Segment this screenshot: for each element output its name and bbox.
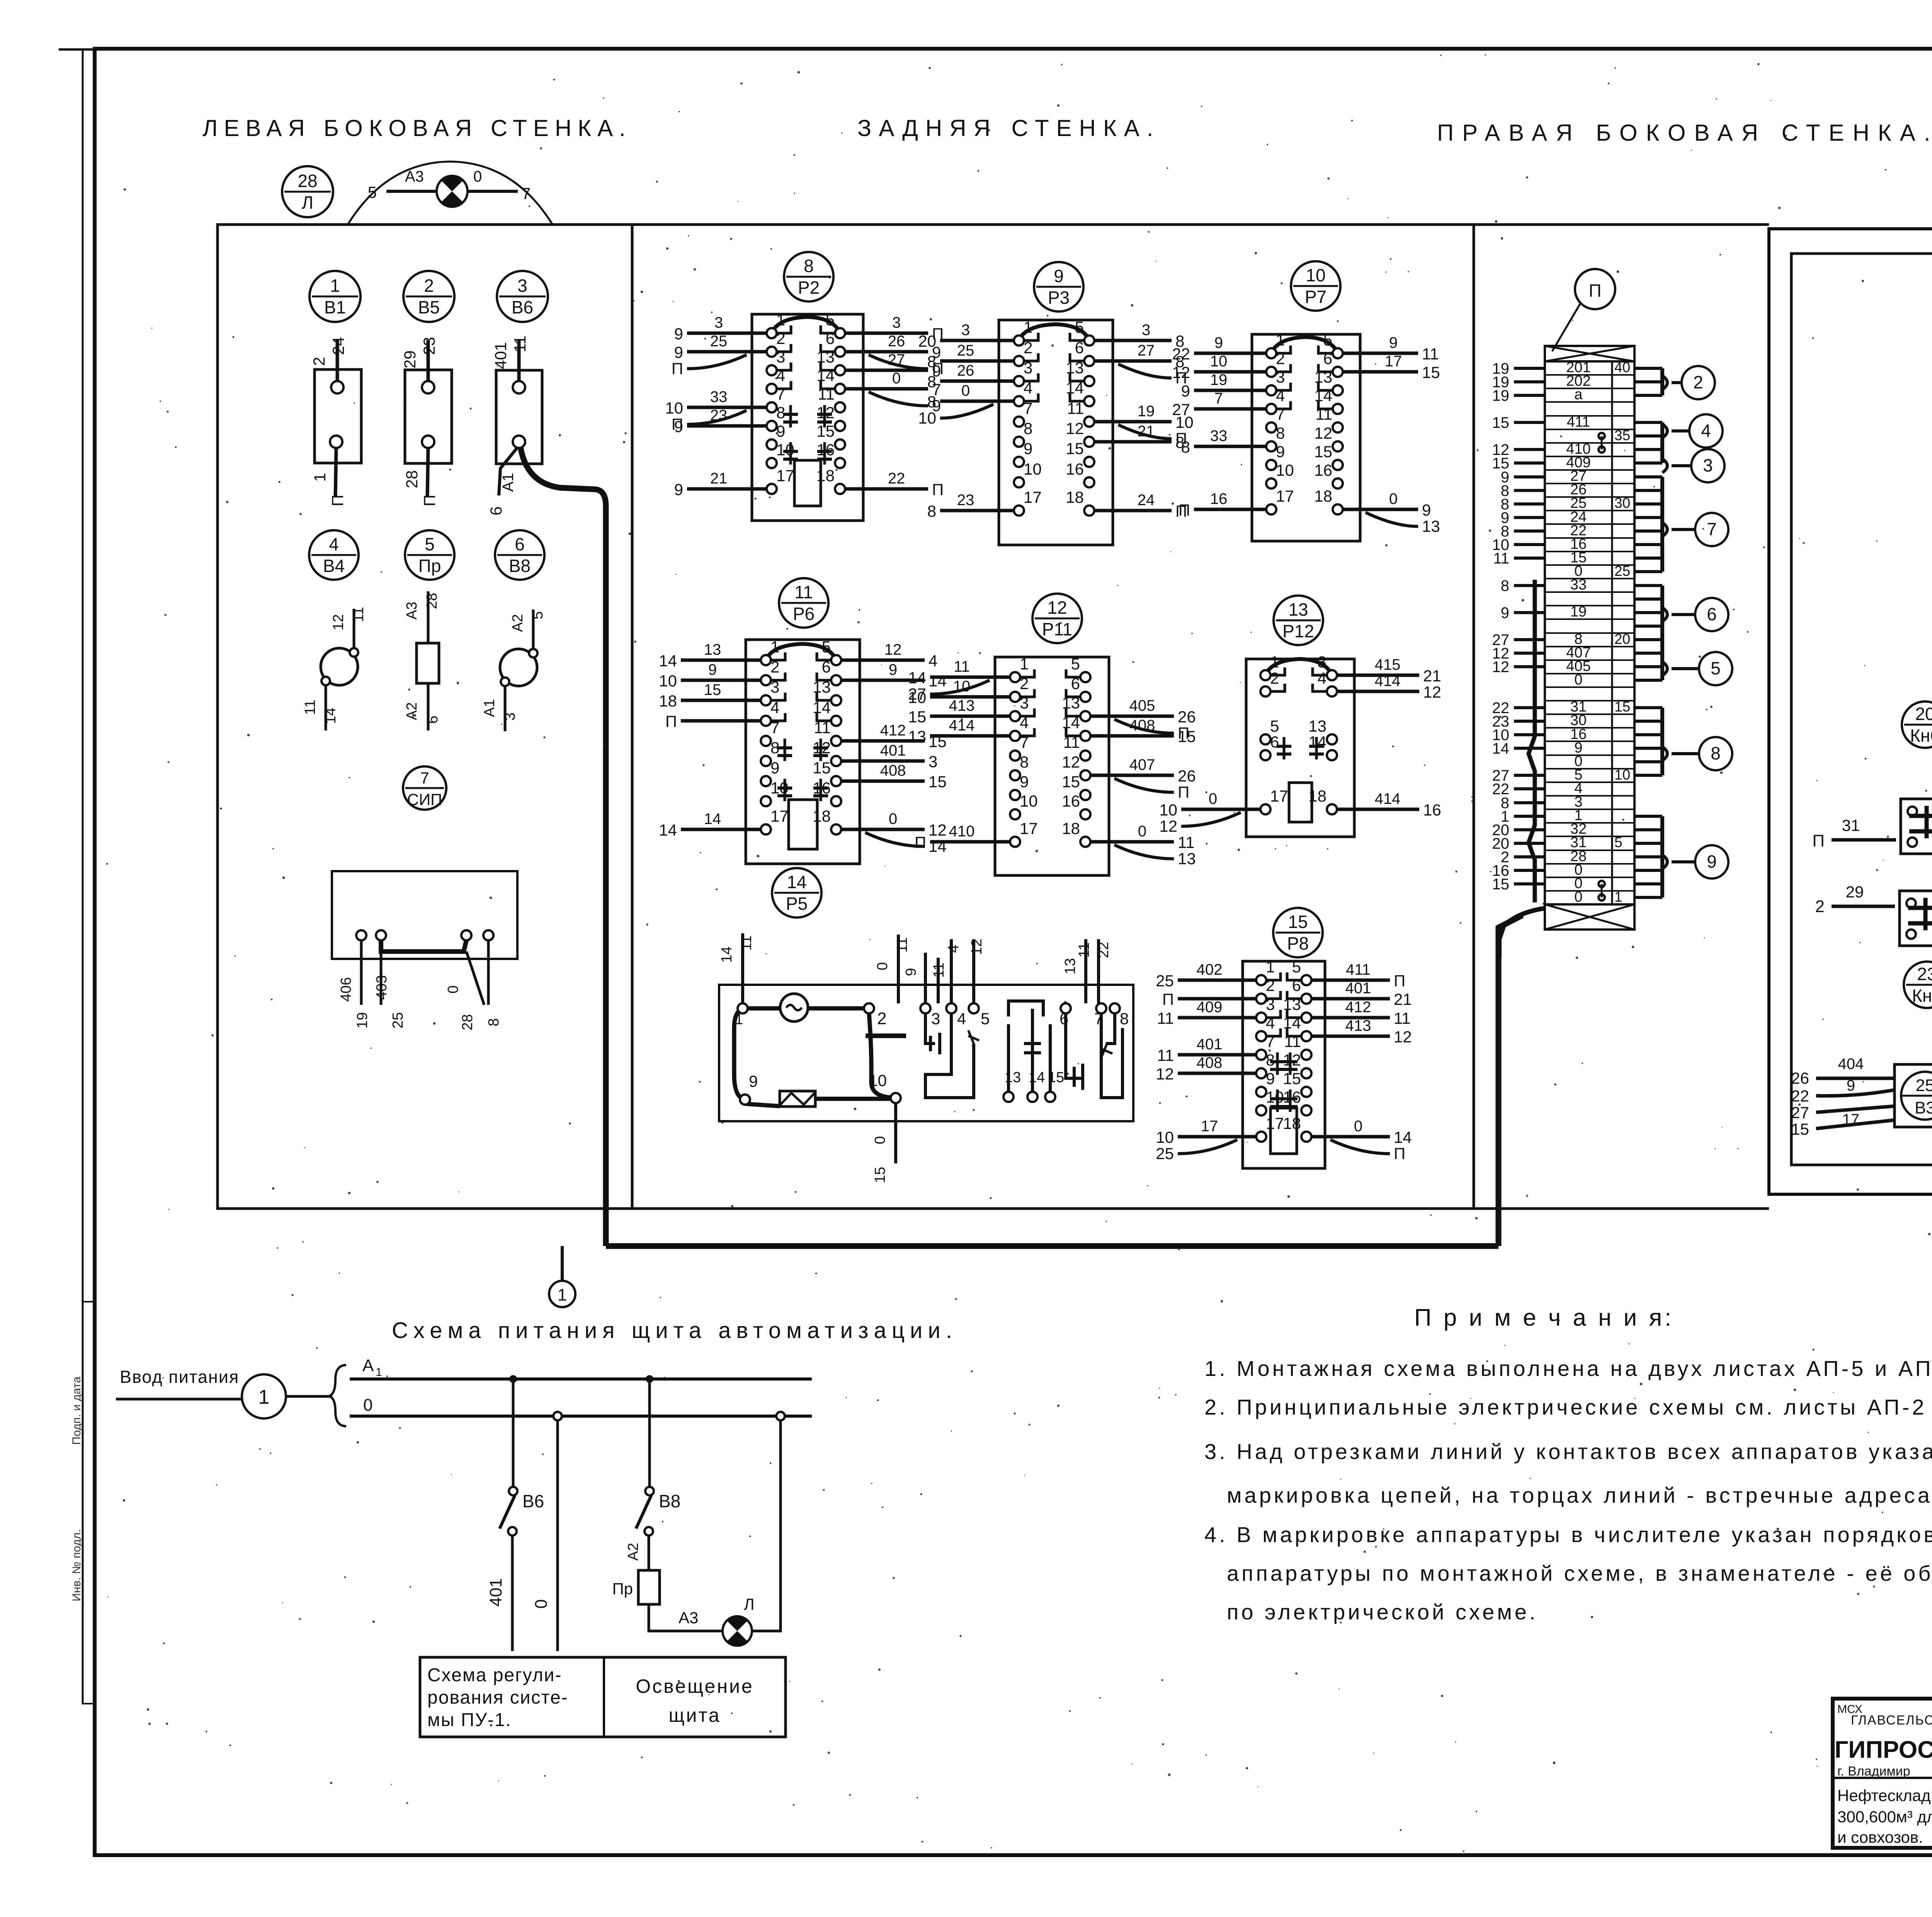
svg-text:12: 12	[969, 939, 985, 955]
svg-text:26: 26	[1178, 708, 1196, 726]
svg-text:14: 14	[1394, 1128, 1412, 1146]
svg-text:Р8: Р8	[1287, 933, 1309, 953]
svg-text:мы ПУ-1.: мы ПУ-1.	[427, 1710, 512, 1730]
switch label circle 6/В8	[495, 530, 544, 580]
svg-text:9: 9	[1020, 773, 1029, 791]
svg-text:А: А	[362, 1356, 374, 1375]
svg-text:5: 5	[1292, 958, 1301, 976]
svg-text:В3: В3	[1915, 1098, 1932, 1117]
svg-text:27: 27	[1138, 342, 1155, 359]
svg-text:СИП: СИП	[407, 790, 442, 809]
svg-text:В8: В8	[659, 1491, 680, 1511]
svg-text:Р12: Р12	[1282, 621, 1314, 641]
svg-text:8: 8	[1024, 419, 1032, 438]
node circle 1 (harness)	[549, 1281, 575, 1307]
svg-text:0: 0	[1389, 490, 1398, 507]
svg-text:2: 2	[877, 1009, 886, 1028]
svg-text:6: 6	[1707, 604, 1717, 624]
svg-text:П: П	[672, 359, 683, 378]
svg-text:14: 14	[1066, 379, 1084, 397]
svg-text:3: 3	[931, 1010, 940, 1028]
svg-text:5: 5	[826, 311, 835, 329]
svg-text:12: 12	[1314, 424, 1332, 442]
svg-text:8: 8	[1020, 753, 1029, 771]
svg-text:5: 5	[425, 534, 435, 554]
svg-text:6: 6	[1323, 349, 1332, 368]
svg-text:10: 10	[1276, 461, 1294, 479]
svg-text:12: 12	[1047, 598, 1067, 618]
svg-text:11: 11	[954, 658, 970, 675]
svg-text:13: 13	[908, 727, 926, 746]
svg-text:14: 14	[1062, 713, 1080, 732]
svg-text:11: 11	[1076, 942, 1092, 957]
svg-text:9: 9	[708, 661, 717, 678]
terminal strip П	[1492, 346, 1733, 958]
svg-text:14: 14	[1314, 386, 1332, 405]
svg-text:7: 7	[1020, 733, 1029, 751]
svg-text:2: 2	[1024, 339, 1032, 357]
svg-text:10: 10	[1024, 460, 1042, 478]
svg-text:15: 15	[1614, 699, 1630, 715]
svg-text:15: 15	[1066, 439, 1084, 458]
svg-text:8: 8	[1711, 743, 1721, 763]
svg-text:16: 16	[1314, 461, 1332, 479]
switch label circle 4/В4	[309, 530, 359, 580]
svg-text:15: 15	[813, 759, 831, 777]
door inner outline	[1791, 254, 1932, 1165]
svg-text:6: 6	[1270, 733, 1279, 751]
svg-text:22: 22	[1791, 1087, 1809, 1105]
back wall outline	[632, 225, 1474, 1209]
svg-text:15: 15	[872, 1167, 888, 1183]
button label 20/Кн6	[1902, 701, 1932, 748]
svg-text:11: 11	[814, 718, 831, 737]
svg-text:П: П	[665, 712, 677, 730]
svg-text:21: 21	[1138, 423, 1155, 440]
svg-text:401: 401	[486, 1578, 505, 1606]
svg-text:6: 6	[515, 534, 525, 554]
svg-text:3: 3	[1276, 368, 1285, 386]
svg-text:4: 4	[957, 1010, 966, 1028]
branch B8 with fuse and lamp	[612, 1383, 754, 1631]
svg-text:В8: В8	[509, 556, 531, 576]
feed node circle 1	[242, 1374, 332, 1418]
left wall outline	[218, 225, 632, 1209]
svg-text:10: 10	[908, 688, 926, 707]
svg-text:1: 1	[1020, 655, 1029, 673]
svg-text:и совхозов.: и совхозов.	[1837, 1828, 1923, 1846]
label circle 7/СИП	[403, 766, 446, 810]
svg-text:15: 15	[908, 708, 926, 726]
svg-text:3: 3	[776, 348, 785, 366]
svg-text:2: 2	[424, 276, 434, 296]
svg-text:16: 16	[1210, 490, 1228, 507]
svg-text:415: 415	[1375, 656, 1401, 673]
svg-text:13: 13	[1062, 958, 1078, 974]
svg-text:ЛЕВАЯ БОКОВАЯ СТЕНКА.: ЛЕВАЯ БОКОВАЯ СТЕНКА.	[202, 115, 632, 141]
svg-text:14: 14	[659, 821, 677, 839]
svg-text:15: 15	[1422, 363, 1440, 381]
svg-text:7: 7	[1707, 519, 1717, 539]
svg-text:21: 21	[710, 470, 728, 487]
svg-text:14: 14	[929, 837, 947, 855]
svg-text:П р и м е ч а н и я:: П р и м е ч а н и я:	[1414, 1304, 1674, 1331]
svg-text:15: 15	[1062, 773, 1080, 791]
svg-text:5: 5	[1323, 331, 1332, 349]
svg-text:33: 33	[1210, 427, 1228, 444]
svg-text:4: 4	[1276, 386, 1285, 405]
svg-text:21: 21	[1423, 667, 1441, 685]
svg-text:14: 14	[813, 698, 831, 717]
svg-text:7: 7	[1276, 405, 1285, 423]
svg-text:28: 28	[459, 1014, 476, 1030]
svg-text:17: 17	[1276, 487, 1294, 505]
svg-text:10: 10	[1306, 265, 1325, 285]
svg-text:10: 10	[665, 399, 683, 417]
svg-text:5: 5	[1075, 318, 1084, 336]
relay label 8/Р2	[784, 252, 833, 301]
svg-text:Освещение: Освещение	[636, 1675, 753, 1697]
switch label circle 1/В1	[310, 271, 361, 322]
svg-text:401: 401	[492, 342, 510, 369]
svg-text:4: 4	[770, 698, 779, 717]
svg-text:А3: А3	[404, 602, 420, 620]
svg-text:9: 9	[1501, 604, 1509, 621]
svg-text:40: 40	[1614, 359, 1630, 375]
svg-text:3: 3	[1142, 322, 1150, 339]
svg-text:5: 5	[822, 638, 831, 656]
svg-text:Схема регули-: Схема регули-	[427, 1665, 562, 1685]
svg-text:5: 5	[1071, 655, 1080, 673]
svg-text:0: 0	[961, 382, 970, 399]
svg-text:13: 13	[1283, 995, 1301, 1013]
svg-text:26: 26	[888, 333, 905, 350]
svg-text:15: 15	[1314, 443, 1332, 461]
svg-text:414: 414	[1375, 672, 1401, 690]
svg-text:1: 1	[330, 276, 340, 296]
svg-text:12: 12	[929, 821, 947, 839]
svg-text:ГЛАВСЕЛЬСТРОЙПРОЕКТ: ГЛАВСЕЛЬСТРОЙПРОЕКТ	[1851, 1713, 1932, 1728]
svg-text:28: 28	[298, 171, 317, 191]
svg-text:А1: А1	[500, 473, 517, 492]
svg-text:Л: Л	[302, 192, 313, 213]
svg-text:20: 20	[918, 332, 936, 350]
svg-text:33: 33	[1570, 577, 1587, 593]
svg-text:25: 25	[957, 342, 975, 359]
svg-text:4: 4	[1020, 713, 1029, 732]
svg-text:А2: А2	[404, 702, 420, 720]
svg-text:3: 3	[1703, 455, 1713, 475]
bus A1	[350, 1356, 812, 1379]
svg-text:6: 6	[1075, 339, 1084, 357]
svg-text:11: 11	[511, 335, 529, 352]
svg-text:2: 2	[1693, 372, 1703, 392]
svg-text:4: 4	[929, 652, 937, 670]
svg-text:15: 15	[929, 773, 947, 791]
door outer outline	[1769, 229, 1932, 1194]
svg-text:4: 4	[776, 366, 785, 385]
svg-text:5: 5	[1711, 658, 1721, 678]
branch B6	[486, 1383, 544, 1651]
svg-text:1: 1	[1614, 889, 1622, 905]
svg-text:22: 22	[888, 470, 905, 487]
svg-text:10: 10	[869, 1071, 887, 1090]
svg-text:18: 18	[813, 807, 831, 825]
svg-text:9: 9	[889, 661, 897, 678]
feed wire	[116, 1398, 242, 1401]
lamp Л wire 5-А3-0-7	[368, 168, 531, 203]
svg-text:маркировка цепей, на торцах: маркировка цепей, на торцах линий - встр…	[1227, 1483, 1932, 1507]
svg-text:10: 10	[918, 409, 936, 427]
svg-text:28: 28	[403, 470, 421, 489]
svg-text:2: 2	[776, 329, 785, 347]
svg-text:10: 10	[1614, 767, 1630, 783]
svg-text:23: 23	[420, 337, 438, 355]
svg-text:413: 413	[1345, 1017, 1371, 1034]
svg-text:11: 11	[1157, 1009, 1174, 1027]
svg-text:21: 21	[1394, 990, 1412, 1008]
svg-text:0: 0	[1574, 672, 1582, 688]
feed brace	[329, 1365, 346, 1426]
svg-text:13: 13	[1288, 599, 1308, 620]
svg-text:401: 401	[1345, 980, 1371, 997]
svg-text:8: 8	[927, 502, 936, 520]
svg-text:28: 28	[424, 593, 440, 609]
svg-text:8: 8	[927, 373, 936, 391]
svg-text:г. Владимир: г. Владимир	[1837, 1764, 1910, 1779]
svg-text:8: 8	[1501, 577, 1509, 594]
svg-text:1: 1	[776, 311, 785, 329]
svg-text:16: 16	[1066, 460, 1084, 478]
svg-text:0: 0	[363, 1396, 372, 1415]
svg-text:18: 18	[659, 692, 677, 710]
svg-text:401: 401	[1197, 1036, 1223, 1053]
svg-text:5: 5	[1614, 834, 1622, 850]
svg-text:17: 17	[1842, 1111, 1860, 1128]
svg-text:11: 11	[1063, 733, 1080, 751]
svg-text:3: 3	[961, 322, 970, 339]
svg-text:414: 414	[1375, 790, 1401, 807]
relay Р2	[665, 311, 944, 521]
svg-text:0: 0	[445, 985, 461, 993]
svg-text:3: 3	[1318, 653, 1327, 671]
svg-text:12: 12	[330, 614, 347, 630]
svg-text:9: 9	[1181, 382, 1190, 400]
svg-text:6: 6	[826, 329, 835, 347]
svg-text:11: 11	[794, 582, 813, 602]
svg-text:7: 7	[522, 184, 531, 203]
svg-text:15: 15	[1791, 1120, 1809, 1138]
svg-text:3. Над отрезками линий у к: 3. Над отрезками линий у контактов всех …	[1204, 1439, 1932, 1464]
svg-text:23: 23	[710, 407, 728, 424]
svg-text:11: 11	[931, 962, 947, 977]
svg-text:13: 13	[1066, 359, 1084, 377]
svg-text:18: 18	[1062, 819, 1080, 838]
svg-text:0: 0	[532, 1599, 551, 1609]
svg-text:17: 17	[1266, 1114, 1284, 1132]
svg-text:11: 11	[738, 935, 755, 950]
svg-text:4: 4	[1318, 669, 1327, 687]
svg-text:20: 20	[1915, 704, 1932, 724]
svg-text:3: 3	[1266, 995, 1275, 1013]
svg-text:14: 14	[659, 652, 677, 670]
svg-text:5: 5	[981, 1010, 990, 1028]
svg-text:А2: А2	[510, 614, 526, 632]
svg-text:13: 13	[1308, 717, 1327, 735]
svg-text:1: 1	[1270, 653, 1279, 671]
svg-text:1. Монтажная схема выполнена: 1. Монтажная схема выполнена на двух лис…	[1204, 1356, 1932, 1381]
svg-text:19: 19	[1492, 387, 1510, 404]
svg-text:24: 24	[1138, 492, 1155, 509]
svg-text:11: 11	[1394, 1009, 1411, 1027]
svg-text:404: 404	[1838, 1056, 1864, 1073]
svg-text:11: 11	[350, 607, 367, 622]
svg-text:12: 12	[884, 641, 902, 658]
svg-text:7: 7	[770, 718, 779, 737]
svg-text:0: 0	[872, 1136, 888, 1144]
svg-text:15: 15	[1178, 727, 1196, 746]
relay Р8	[1156, 958, 1412, 1168]
relay label 9/Р3	[1034, 262, 1083, 312]
svg-text:9: 9	[749, 1072, 758, 1090]
svg-text:15: 15	[1283, 1069, 1301, 1088]
svg-text:3: 3	[517, 276, 527, 296]
svg-text:18: 18	[1314, 487, 1332, 505]
svg-text:408: 408	[1129, 717, 1155, 734]
bus 0	[350, 1396, 812, 1416]
svg-text:Нефтесклад емкостью: Нефтесклад емкостью	[1837, 1786, 1932, 1805]
relay label 15/Р8	[1273, 908, 1323, 957]
svg-text:25: 25	[1614, 563, 1630, 579]
svg-text:Р11: Р11	[1042, 619, 1072, 639]
svg-text:4: 4	[946, 945, 962, 953]
svg-text:П: П	[1394, 1144, 1405, 1163]
svg-text:2: 2	[1020, 674, 1029, 693]
svg-text:7: 7	[776, 385, 785, 403]
svg-text:2: 2	[1815, 897, 1825, 916]
svg-text:23: 23	[1917, 964, 1932, 984]
switch label circle 3/В6	[497, 271, 548, 322]
svg-text:4. В маркировке аппаратуры: 4. В маркировке аппаратуры в числителе у…	[1204, 1522, 1932, 1547]
svg-text:1: 1	[735, 1011, 743, 1028]
terminal box СИП	[332, 871, 517, 1030]
cable tap to node 1	[561, 1246, 564, 1281]
svg-text:0: 0	[892, 370, 901, 387]
svg-text:14: 14	[787, 872, 806, 892]
svg-text:9: 9	[674, 325, 683, 343]
svg-text:12: 12	[1172, 363, 1190, 381]
svg-text:9: 9	[1707, 851, 1717, 872]
switch B1 body	[310, 337, 361, 506]
svg-text:2: 2	[1270, 669, 1279, 687]
svg-text:13: 13	[1062, 694, 1080, 712]
svg-text:407: 407	[1129, 756, 1155, 773]
svg-text:10: 10	[1159, 801, 1177, 819]
svg-text:0: 0	[473, 168, 482, 185]
svg-text:410: 410	[949, 823, 975, 840]
svg-text:14: 14	[1492, 740, 1510, 757]
terminal strip label П	[1552, 269, 1615, 351]
svg-text:8: 8	[1276, 424, 1285, 442]
svg-text:ПРАВАЯ БОКОВАЯ СТЕНКА.: ПРАВАЯ БОКОВАЯ СТЕНКА.	[1437, 120, 1932, 146]
svg-text:9: 9	[1847, 1077, 1855, 1094]
fuse Пр	[404, 591, 441, 730]
svg-text:1: 1	[770, 638, 779, 656]
svg-text:6: 6	[1292, 976, 1301, 994]
lamp circuit label 28/Л	[282, 166, 333, 217]
svg-text:6: 6	[487, 506, 505, 515]
svg-text:П: П	[1394, 972, 1405, 990]
svg-text:Инв. № подл.: Инв. № подл.	[70, 1529, 83, 1602]
svg-text:А2: А2	[625, 1543, 641, 1561]
svg-text:412: 412	[1345, 999, 1371, 1016]
svg-text:9: 9	[1214, 334, 1223, 351]
svg-text:300,600м³ для колхозов: 300,600м³ для колхозов	[1837, 1808, 1932, 1826]
svg-text:11: 11	[1067, 399, 1084, 417]
svg-text:Р7: Р7	[1305, 287, 1327, 307]
svg-text:9: 9	[1266, 1069, 1275, 1088]
svg-text:402: 402	[1197, 961, 1223, 978]
svg-text:10: 10	[1020, 792, 1038, 810]
svg-text:3: 3	[929, 752, 937, 771]
svg-text:Кн6: Кн6	[1910, 725, 1932, 746]
svg-text:22: 22	[1095, 942, 1112, 958]
svg-text:403: 403	[374, 975, 390, 999]
svg-text:29: 29	[1846, 883, 1864, 901]
svg-text:26: 26	[957, 362, 975, 379]
svg-text:14: 14	[929, 672, 947, 690]
svg-text:В1: В1	[324, 297, 346, 317]
svg-text:17: 17	[1020, 819, 1038, 838]
svg-text:27: 27	[888, 351, 905, 368]
junction dots on A1	[509, 1375, 517, 1383]
svg-text:26: 26	[1791, 1069, 1809, 1087]
svg-text:6: 6	[1071, 674, 1080, 693]
svg-text:3: 3	[770, 678, 779, 696]
svg-text:Л: Л	[744, 1595, 755, 1613]
svg-text:16: 16	[1062, 792, 1080, 810]
relay label 12/Р11	[1032, 594, 1082, 643]
svg-text:19: 19	[354, 1012, 371, 1028]
main harness cable	[606, 1243, 1498, 1249]
svg-text:12: 12	[1156, 1065, 1174, 1083]
svg-text:ГИПРОСЕЛЬХОЗПРОМ: ГИПРОСЕЛЬХОЗПРОМ	[1835, 1737, 1932, 1763]
svg-text:13: 13	[704, 641, 721, 658]
svg-text:Р5: Р5	[786, 894, 808, 914]
svg-text:Р6: Р6	[793, 604, 815, 624]
svg-text:9: 9	[776, 422, 785, 440]
svg-text:2: 2	[770, 658, 779, 676]
svg-text:4: 4	[329, 534, 339, 554]
svg-text:27: 27	[1791, 1103, 1809, 1122]
svg-text:408: 408	[880, 762, 906, 779]
svg-text:14: 14	[816, 366, 835, 385]
relay label 11/Р6	[779, 578, 828, 628]
relay Р7	[1172, 331, 1440, 541]
svg-text:12: 12	[1492, 659, 1510, 676]
svg-text:10: 10	[1266, 1088, 1284, 1106]
svg-text:1: 1	[1266, 958, 1275, 976]
svg-text:П: П	[328, 495, 347, 506]
svg-text:5: 5	[1270, 717, 1279, 735]
svg-text:6: 6	[822, 658, 831, 676]
svg-text:П: П	[932, 480, 944, 499]
selector switch B8	[481, 609, 546, 731]
svg-text:18: 18	[1066, 488, 1084, 506]
svg-text:13: 13	[816, 348, 835, 366]
svg-text:0: 0	[1138, 823, 1146, 840]
svg-text:3: 3	[1020, 694, 1029, 712]
